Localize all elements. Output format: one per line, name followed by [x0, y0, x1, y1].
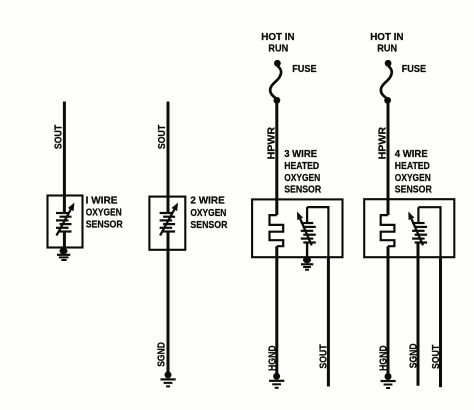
svg-text:HOT IN: HOT IN: [370, 32, 403, 43]
svg-text:3 WIRE: 3 WIRE: [284, 149, 317, 160]
svg-text:SGND: SGND: [156, 342, 167, 367]
svg-text:SOUT: SOUT: [431, 345, 442, 369]
svg-text:RUN: RUN: [377, 44, 397, 55]
svg-text:HGND: HGND: [267, 345, 278, 371]
wire SGND of 2-wire sensor: [167, 232, 170, 375]
wire loop to SOUT (3-wire): [307, 207, 328, 257]
svg-text:I WIRE: I WIRE: [86, 196, 118, 207]
ground (HGND termination, 4-wire): [381, 373, 396, 388]
svg-text:RUN: RUN: [268, 44, 288, 55]
wire HGND (3-wire): [275, 246, 278, 376]
wire SOUT (4-wire): [439, 257, 442, 387]
svg-text:FUSE: FUSE: [292, 64, 317, 75]
svg-text:SGND: SGND: [409, 344, 420, 369]
wire SOUT (3-wire): [327, 257, 330, 386]
svg-text:HOT IN: HOT IN: [261, 32, 294, 43]
svg-text:FUSE: FUSE: [402, 64, 427, 75]
fuse (4-wire circuit): [381, 60, 392, 104]
4-wire heated oxygen sensor box: [364, 199, 454, 257]
svg-text:SENSOR: SENSOR: [395, 185, 433, 196]
ground (SGND termination): [161, 371, 176, 386]
label HOT IN RUN (4-wire feed): [370, 32, 403, 55]
wire SOUT of 1-wire sensor: [63, 102, 66, 214]
svg-text:SOUT: SOUT: [318, 344, 329, 368]
svg-text:HEATED: HEATED: [284, 161, 319, 172]
heater element (3-wire): [270, 215, 284, 246]
svg-text:OXYGEN: OXYGEN: [86, 207, 122, 218]
svg-text:4 WIRE: 4 WIRE: [395, 149, 428, 160]
ground (3-wire sensor case): [301, 257, 313, 270]
svg-text:SENSOR: SENSOR: [190, 220, 228, 231]
svg-text:2 WIRE: 2 WIRE: [190, 196, 225, 207]
variable resistor (1-wire sensing element): [56, 203, 75, 252]
3-wire heated oxygen sensor box: [252, 199, 342, 257]
wire HPWR (4-wire): [387, 100, 390, 215]
svg-text:OXYGEN: OXYGEN: [284, 173, 320, 184]
svg-text:SENSOR: SENSOR: [284, 185, 322, 196]
svg-text:HGND: HGND: [379, 345, 390, 371]
label 1 WIRE OXYGEN SENSOR: [86, 196, 124, 231]
svg-text:OXYGEN: OXYGEN: [395, 173, 431, 184]
fuse (3-wire circuit): [270, 60, 281, 104]
svg-text:SOUT: SOUT: [53, 125, 64, 149]
wire HGND (4-wire): [387, 246, 390, 376]
variable resistor (3-wire sensing element): [297, 207, 316, 259]
svg-text:HEATED: HEATED: [395, 161, 430, 172]
2-wire oxygen sensor box: [149, 197, 185, 250]
svg-text:SENSOR: SENSOR: [86, 220, 124, 231]
wire SOUT of 2-wire sensor: [167, 102, 170, 214]
svg-text:HPWR: HPWR: [266, 126, 277, 159]
label 2 WIRE OXYGEN SENSOR: [190, 196, 228, 231]
svg-text:SOUT: SOUT: [157, 125, 168, 149]
wire loop to SOUT (4-wire): [418, 207, 440, 257]
ground (HGND termination, 3-wire): [269, 373, 284, 388]
wire HPWR (3-wire): [275, 100, 278, 215]
label 4 WIRE HEATED OXYGEN SENSOR: [395, 149, 433, 196]
label 3 WIRE HEATED OXYGEN SENSOR: [284, 149, 322, 196]
variable resistor (4-wire sensing element): [408, 207, 427, 245]
wire SGND (4-wire): [417, 243, 420, 386]
label HOT IN RUN (3-wire feed): [261, 32, 294, 55]
svg-text:OXYGEN: OXYGEN: [190, 208, 226, 219]
variable resistor (2-wire sensing element): [160, 203, 179, 236]
svg-text:HPWR: HPWR: [378, 126, 389, 159]
1-wire oxygen sensor box: [48, 196, 83, 248]
ground (1-wire sensor case): [57, 248, 70, 260]
heater element (4-wire): [381, 215, 395, 246]
